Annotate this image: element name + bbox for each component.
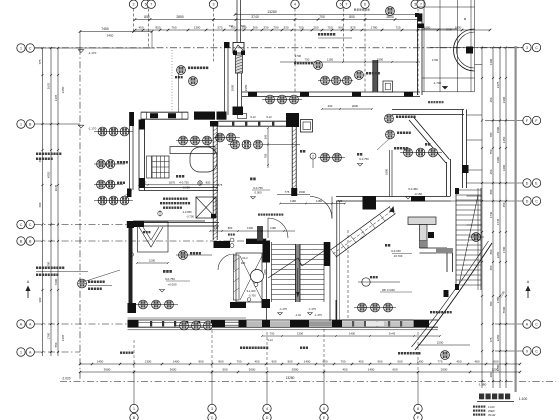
annotation bubble single x389 [385,114,394,123]
svg-text:C: C [535,349,538,353]
wire top bubble stems [133,9,135,32]
svg-text:9-0.150: 9-0.150 [391,249,401,253]
svg-text:1: 1 [20,122,22,126]
node small boxes above dining band [238,114,247,119]
text top wing note [318,33,320,36]
svg-text:2945: 2945 [54,184,58,191]
wire balcony line [280,61,420,63]
svg-text:4: 4 [266,407,268,411]
wall bay bottom w black [412,196,451,198]
node section arrow A right [527,288,529,298]
node black sq bay [466,47,473,54]
annotation bubble drain 2 [189,77,198,86]
annotation bubbles left pair y184 [97,180,106,189]
svg-text:-0.700: -0.700 [186,215,194,219]
wall corridor band left [134,222,219,224]
svg-text:-2.020: -2.020 [61,377,70,381]
node black chunk left low [128,303,137,313]
svg-text:1400: 1400 [349,332,356,336]
svg-text:1870: 1870 [169,181,176,185]
svg-text:1: 1 [133,407,135,411]
svg-text:1400: 1400 [489,58,493,65]
svg-text:800: 800 [338,26,343,30]
svg-text:2: 2 [312,154,314,158]
svg-text:9-0.750: 9-0.750 [165,277,175,281]
node floor drain kitchen [198,181,202,185]
svg-text:450: 450 [342,368,347,372]
annotation bubble drain pipe [314,61,323,70]
text left wall note [36,153,38,156]
svg-text:400: 400 [328,104,333,108]
node black sqs right wing wall [415,13,419,17]
svg-text:450: 450 [502,202,506,207]
text bottom notes left [240,347,242,350]
node left dim verticals [42,48,44,356]
wall kitchen top window band [141,111,188,113]
svg-text:1400: 1400 [417,360,424,364]
svg-text:8: 8 [417,407,419,411]
wall bay right vertical [446,162,448,196]
svg-text:01-2: 01-2 [242,256,248,260]
svg-text:780: 780 [489,301,493,306]
wire leader left low [86,270,120,281]
svg-text:1180: 1180 [316,199,322,203]
svg-text:2475: 2475 [496,81,500,88]
svg-text:3600: 3600 [170,368,177,372]
text bedroom labels [163,270,166,273]
svg-text:600: 600 [493,360,498,364]
wall central double A [224,42,226,115]
node right match line gray [514,46,516,392]
wire bottom axis stems into plan [133,340,135,372]
text title underline [479,394,484,400]
svg-text:600: 600 [38,202,42,207]
svg-text:9-1.020: 9-1.020 [247,289,256,293]
svg-text:3000: 3000 [249,368,256,372]
svg-text:13280: 13280 [267,10,277,14]
svg-text:D: D [266,416,269,420]
node dim 2200 bottom right [418,344,470,346]
svg-text:3400: 3400 [502,164,506,171]
svg-text:700: 700 [241,24,246,28]
wire bubble cluster threads [94,131,133,133]
node dining vert dim [267,128,269,168]
wall wc bottom blacks [230,302,246,308]
svg-text:700: 700 [273,26,278,30]
node column flue top [286,113,299,127]
svg-text:850: 850 [144,15,150,19]
svg-text:5500: 5500 [502,306,506,313]
wall stair left black [263,241,271,263]
node drain left [130,253,134,257]
svg-text:2300: 2300 [502,96,506,103]
wall vent shaft dark [373,60,378,92]
svg-text:450: 450 [254,360,259,364]
svg-text:1400: 1400 [304,360,311,364]
svg-text:9-0.750: 9-0.750 [253,186,263,190]
node bottom dim chain row1 [80,363,520,365]
svg-text:7: 7 [150,3,152,7]
svg-text:700: 700 [319,15,325,19]
svg-text:2000: 2000 [352,104,359,108]
text living labels [300,150,302,153]
wire terrace dotted vertical [171,50,173,112]
svg-text:700: 700 [236,360,241,364]
svg-text:1300: 1300 [297,332,304,336]
svg-text:1745: 1745 [496,218,500,225]
text court room label [385,244,387,247]
svg-text:800: 800 [489,189,493,194]
svg-text:0.000: 0.000 [255,191,262,195]
svg-text:2625: 2625 [47,82,51,89]
fixture stove grid [152,156,169,178]
fixture kitchen counter [170,147,215,154]
wall wc wall black [257,226,263,241]
svg-text:3740: 3740 [251,15,259,19]
svg-text:1500: 1500 [377,58,384,62]
svg-text:775: 775 [437,360,442,364]
svg-text:450: 450 [456,360,461,364]
svg-text:3: 3 [526,46,528,50]
svg-text:1300: 1300 [247,226,253,230]
svg-text:750: 750 [327,26,332,30]
fixture wc column [234,255,240,300]
node grid bubbles left [17,44,25,52]
wall top band [242,91,420,93]
svg-text:780: 780 [264,153,268,158]
svg-text:C: C [535,46,538,50]
wall closet top line [133,220,205,222]
wall right wing double [417,14,419,96]
wall living right thin [389,150,391,197]
svg-text:4-0.750: 4-0.750 [179,181,189,185]
node flue box wing [383,81,393,92]
svg-text:600: 600 [392,368,397,372]
svg-text:2600: 2600 [386,15,394,19]
svg-text:2200: 2200 [437,341,444,345]
wall thin vertical x336 low [335,300,337,320]
wall central double B [236,0,238,42]
svg-text:450: 450 [138,26,143,30]
svg-text:7450: 7450 [101,27,109,31]
svg-text:-1.475: -1.475 [308,307,316,311]
svg-text:2250: 2250 [496,334,500,341]
svg-text:1400: 1400 [368,368,375,372]
svg-text:-1.475: -1.475 [279,307,287,311]
svg-text:1450: 1450 [97,360,104,364]
wall bay top double [392,109,464,111]
svg-text:2850: 2850 [176,15,184,19]
svg-text:-0.700: -0.700 [248,294,256,298]
node grid bubbles top [129,0,137,8]
svg-text:1790: 1790 [47,332,51,339]
svg-text:1300: 1300 [145,360,152,364]
wire right wing grid lines [418,6,475,8]
svg-text:250: 250 [313,26,318,30]
svg-text:1780: 1780 [371,26,378,30]
node axis-line left vertical x80 [79,48,81,382]
wire left bubble lines [35,47,156,49]
node detail circle 2 [310,153,316,159]
svg-text:1150: 1150 [327,58,333,62]
annotation bubbles bay triple [404,148,413,157]
wall bay diagonal [409,120,446,163]
svg-text:1400: 1400 [173,360,180,364]
node section arrow A left [27,288,29,298]
annotation bubble top center [386,7,395,16]
wall bedroom bottom band [128,319,439,321]
wire leader diagonals [377,138,390,150]
svg-text:1365: 1365 [61,334,65,341]
node bottom dim chain row2 [80,371,520,373]
svg-text:600: 600 [397,360,402,364]
svg-text:9-13: 9-13 [250,115,256,119]
svg-text:5: 5 [323,407,325,411]
svg-text:-1.475: -1.475 [314,313,322,317]
svg-text:1: 1 [20,46,22,50]
annotation bubble single x390 [386,130,395,139]
annotation bubbles top triple y99 [266,95,275,104]
text title info rows [473,406,475,408]
node corridor marker stack [230,238,234,242]
wall stair top black [246,239,266,244]
fixture closet chevrons [138,222,169,252]
svg-text:1180: 1180 [290,199,296,203]
svg-text:1800: 1800 [385,169,389,175]
svg-text:1700: 1700 [502,246,506,253]
annotation bubbles dining triple [231,140,240,149]
svg-text:7200: 7200 [496,156,500,163]
node small black sq below bay [444,290,449,297]
svg-text:13280: 13280 [286,376,295,380]
svg-text:3: 3 [213,3,215,7]
svg-text:5: 5 [340,3,342,7]
svg-text:1365: 1365 [54,94,58,101]
svg-text:9-13: 9-13 [266,115,272,119]
svg-text:5: 5 [414,3,416,7]
svg-text:775: 775 [489,337,493,342]
svg-text:-0.050: -0.050 [182,186,190,190]
svg-text:175: 175 [218,183,223,187]
svg-text:6: 6 [364,3,366,7]
svg-text:3450: 3450 [107,34,114,38]
annotation bubbles court triple [358,303,367,312]
svg-text:5+45: 5+45 [389,332,396,336]
wire right bubble lines [430,47,523,49]
node grid bubbles bottom [133,372,135,404]
svg-text:4-0.050: 4-0.050 [182,210,192,214]
svg-text:375: 375 [214,226,219,230]
svg-text:500: 500 [264,134,268,139]
svg-text:D: D [526,181,529,185]
node top dim chain total [235,14,420,16]
svg-text:7: 7 [420,3,422,7]
svg-text:750: 750 [489,149,493,154]
annotation bubbles bedroom bottom triple [139,300,148,309]
svg-text:4050: 4050 [47,171,51,178]
node black chunk left wall upper [127,189,132,198]
node elevation mark -1.170 top-left [78,50,84,53]
svg-text:700: 700 [270,332,275,336]
svg-text:2900: 2900 [292,368,299,372]
fixture stair break line [268,258,298,278]
annotation bubble right H [472,233,481,242]
svg-text:9-0.450: 9-0.450 [408,187,418,191]
svg-text:2: 2 [133,3,135,7]
svg-text:1500: 1500 [496,126,500,133]
svg-text:1:100: 1:100 [519,397,528,401]
wall dining-living hatched [291,127,293,196]
node kitchen bottom dims [139,184,218,186]
door arc stair hall [268,218,288,238]
svg-text:C: C [20,223,23,227]
node closet dim [137,262,168,264]
svg-text:1: 1 [20,350,22,354]
text left low underlined rows [36,267,38,270]
wc room outline [236,253,262,302]
node elevation mark -1.170 left [78,125,84,128]
svg-text:700: 700 [338,199,343,203]
svg-text:250: 250 [489,169,493,174]
annotation bubbles left cluster y131 [98,127,107,136]
svg-text:1740: 1740 [489,211,493,218]
annotation bubbles wing triple [318,80,353,82]
svg-text:1350: 1350 [264,269,267,275]
fixture ramp treads [332,251,337,258]
svg-text:750: 750 [305,58,310,62]
svg-text:2000: 2000 [441,368,448,372]
wall central shaft hatched [236,55,243,73]
svg-text:1200: 1200 [149,259,156,263]
svg-text:5: 5 [145,3,147,7]
svg-text:800: 800 [489,249,493,254]
node axis-line bottom horizontal [60,381,556,383]
svg-text:775: 775 [285,190,290,194]
annotation bubbles left triple y200 [98,196,107,205]
svg-text:800: 800 [218,360,223,364]
svg-text:900: 900 [287,360,292,364]
svg-text:1700: 1700 [295,54,302,58]
svg-text:-1.02: -1.02 [295,313,301,317]
svg-text:330: 330 [283,26,288,30]
svg-text:C: C [535,322,538,326]
svg-text:900: 900 [271,360,276,364]
svg-text:4: 4 [294,3,296,7]
svg-text:480: 480 [474,360,479,364]
node grid bubbles right [523,43,531,51]
svg-text:600: 600 [322,360,327,364]
wall kitchen bottom [139,187,218,189]
svg-text:9-0.750: 9-0.750 [359,157,369,161]
svg-text:900: 900 [198,360,203,364]
svg-text:WK F=200: WK F=200 [382,288,395,292]
svg-text:1700: 1700 [432,58,439,62]
node right dim verticals [481,48,483,389]
svg-text:750: 750 [298,26,303,30]
fixture ramp diagonal [331,207,391,251]
svg-text:3600: 3600 [104,368,111,372]
svg-text:760: 760 [252,26,257,30]
fixture shower circle [251,270,264,283]
door arc hall [310,197,332,219]
svg-text:800: 800 [349,15,355,19]
svg-text:330: 330 [263,26,268,30]
annotation bubbles kitchen row [179,136,188,145]
svg-text:300: 300 [489,372,493,377]
svg-text:-1.170: -1.170 [88,51,97,55]
wall hall band with blacks [336,196,412,198]
door arc bedroom [218,254,234,270]
fixture stair stringer [296,244,301,302]
wall bay window arc [454,29,475,71]
svg-text:2350: 2350 [244,84,248,91]
svg-text:900: 900 [377,360,382,364]
svg-text:500: 500 [222,368,227,372]
fixture stair treads [272,244,325,246]
svg-text:450: 450 [358,360,363,364]
svg-text:300: 300 [241,261,246,265]
svg-text:875: 875 [350,26,355,30]
svg-text:C: C [29,223,32,227]
annotation bubble top wing [355,71,364,80]
svg-text:-1.380: -1.380 [478,383,487,387]
svg-text:3200: 3200 [446,28,453,32]
svg-text:1200: 1200 [492,368,499,372]
text bottom notes right [398,352,400,355]
node bottom inner dim row [262,335,440,337]
node corridor dim row [210,230,295,232]
annotation bubbles left pair y164 [97,160,106,169]
text dining label [250,178,253,181]
svg-text:775: 775 [38,59,42,64]
wall court left thin [336,201,338,321]
svg-text:7: 7 [345,3,347,7]
svg-text:C: C [535,199,538,203]
svg-text:1300: 1300 [194,26,201,30]
wall right corridor vertical [462,110,464,189]
svg-text:1180: 1180 [270,226,276,230]
svg-text:380: 380 [142,181,147,185]
svg-text:850: 850 [155,26,160,30]
svg-text:35 kW: 35 kW [488,413,496,417]
text bay room label [425,143,427,146]
fixture kitchen cabinet [147,156,152,178]
svg-text:C: C [211,416,214,420]
text top-left ground note [120,352,122,354]
annotation bubble below curve [441,351,450,360]
wall corridor bottom blacks [214,241,231,248]
svg-text:900: 900 [38,297,42,302]
svg-text:550: 550 [54,342,58,347]
annotation bubbles kitchen pair right [216,133,225,142]
wall bay lower hatched [408,217,436,225]
svg-text:7200: 7200 [54,278,58,285]
svg-text:10.700: 10.700 [394,254,403,258]
svg-text:1450: 1450 [502,136,506,143]
fixture side stair ladder [455,188,457,290]
node stair arrow [297,268,299,296]
node top-left dim 7450 [80,31,152,33]
node central column box [233,43,244,54]
text bay top note [428,101,430,103]
svg-text:-1.700: -1.700 [433,81,442,85]
svg-text:850: 850 [206,181,211,185]
text wall note mid [258,214,260,216]
wall big curve [415,243,492,350]
svg-text:1:100: 1:100 [488,405,495,409]
wall kitchen top right black chunk [194,112,215,120]
text kitchen labels [176,175,178,178]
